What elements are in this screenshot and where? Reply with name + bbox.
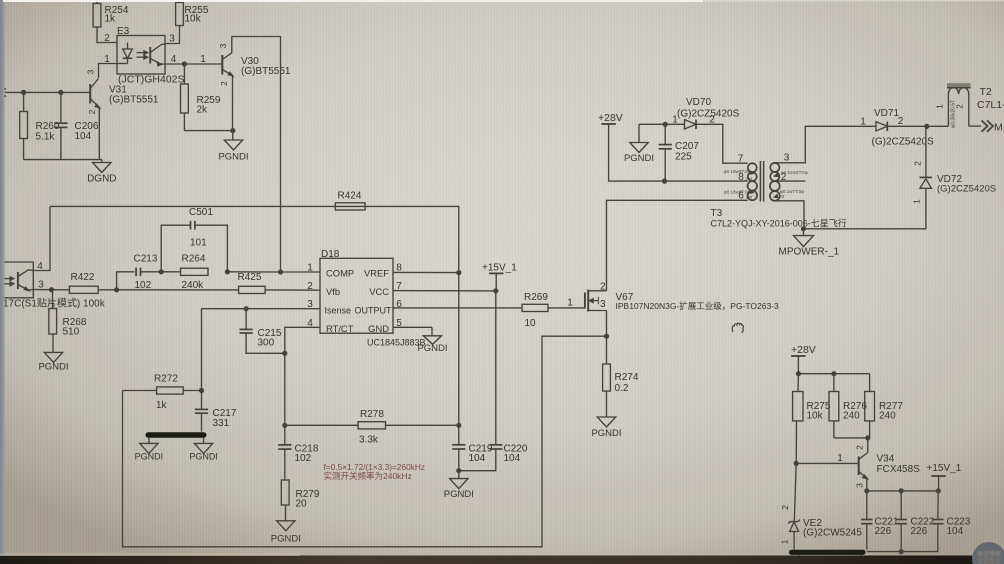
svg-text:φ0.38x20.5T: φ0.38x20.5T (950, 100, 956, 128)
wire 17C pin3 node (33, 289, 69, 291)
svg-text:x3: x3 (780, 194, 785, 199)
svg-text:E3: E3 (117, 26, 130, 37)
wire T3 pin2 stub (775, 180, 805, 182)
resistor R254 (93, 4, 101, 28)
svg-text:PGNDI: PGNDI (135, 452, 164, 462)
node MPOWER junction (801, 226, 806, 231)
resistor R260 (23, 92, 25, 111)
node COMP junction (278, 269, 283, 274)
capacitor C220 (489, 444, 502, 446)
svg-text:Vfb: Vfb (326, 286, 340, 297)
optocoupler 17C body (4, 262, 34, 298)
node pin3 junction (49, 287, 54, 292)
svg-text:300: 300 (258, 338, 275, 349)
svg-text:C7L2-YQJ-XY-2016-006-七星飞行: C7L2-YQJ-XY-2016-006-七星飞行 (711, 218, 847, 229)
ground PGNDI top (638, 124, 640, 142)
svg-text:3: 3 (169, 34, 175, 45)
node C207 bottom junction (662, 179, 667, 184)
svg-text:2: 2 (898, 116, 904, 127)
wire 28V rail to R277 (798, 373, 869, 375)
photo bottom dark strip (0, 556, 1004, 564)
svg-text:微信搜索: 微信搜索 (977, 550, 1001, 558)
resistor R272 (157, 387, 184, 394)
svg-text:+15V_1: +15V_1 (927, 463, 962, 474)
node R264 right junction (225, 269, 230, 274)
svg-text:240: 240 (879, 411, 896, 422)
svg-text:VD71: VD71 (874, 108, 899, 119)
wire VD70 cathode to T3 pin7 (696, 124, 748, 163)
node R278 C219 junction (456, 423, 461, 428)
wire R422 to R425 Vfb net (98, 289, 238, 291)
capacitor C219 (452, 444, 465, 446)
transformer T3 left winding upper (748, 163, 757, 172)
wire R276 R277 bottoms (834, 437, 870, 439)
svg-text:2: 2 (87, 109, 97, 114)
wire DGND bus (24, 159, 102, 161)
node V30 emitter junction (230, 128, 235, 133)
svg-text:PGNDI: PGNDI (271, 534, 301, 545)
svg-text:510: 510 (63, 327, 80, 338)
optocoupler E3 body (117, 36, 165, 75)
node VREF junction (456, 270, 461, 275)
wire T2 to output port (969, 125, 981, 127)
transistor V34 (867, 438, 869, 453)
wire R255 to E3 pin3 (165, 26, 180, 44)
svg-text:RT/CT: RT/CT (326, 323, 354, 334)
wire R254 top feed (96, 0, 98, 4)
svg-text:226: 226 (911, 526, 928, 537)
svg-text:(G)BT5551: (G)BT5551 (109, 95, 159, 106)
svg-text:R274: R274 (615, 372, 639, 383)
svg-text:104: 104 (75, 131, 92, 142)
wire R254 to E3 pin2 (97, 27, 117, 43)
node RT/CT C215 junction (282, 351, 287, 356)
svg-text:PGNDI: PGNDI (189, 452, 218, 462)
svg-text:104: 104 (947, 526, 964, 537)
ground below bar left (799, 555, 801, 557)
wire D18 pin6 OUTPUT (393, 307, 522, 309)
svg-text:GND: GND (368, 323, 389, 334)
wire Isense down leg (201, 309, 203, 391)
wire T3 pin3 to VD71 (775, 126, 876, 163)
svg-text:2: 2 (104, 33, 110, 44)
svg-text:1: 1 (780, 539, 790, 544)
17C light arrows (4, 278, 11, 280)
node VE2 base junction (794, 461, 799, 466)
ground PGNDI below R274 (597, 417, 615, 427)
capacitor C217 (201, 391, 203, 410)
node E3 pin4 junction (182, 61, 187, 66)
svg-text:PGNDI: PGNDI (444, 489, 474, 500)
node V34 emitter junction (864, 488, 869, 493)
ground MPOWER-_1 (803, 229, 805, 236)
wire MPOWER loop to VD72 (804, 188, 926, 229)
svg-text:1: 1 (200, 54, 206, 65)
svg-text:+15V_1: +15V_1 (482, 263, 517, 274)
photo left gray strip (0, 0, 5, 564)
wire V34 base (796, 462, 859, 464)
wire C213 to R264 (141, 271, 181, 273)
svg-text:C207: C207 (675, 141, 699, 152)
svg-text:102: 102 (295, 453, 312, 464)
svg-text:(G)2CZ5420S: (G)2CZ5420S (872, 137, 935, 148)
ground PGNDI below C219 (458, 471, 460, 479)
wire VD71 cathode to T2 node (887, 125, 948, 127)
svg-text:1k: 1k (156, 400, 168, 411)
svg-text:IPB107N20N3G-扩展工业级，PG-TO263-3: IPB107N20N3G-扩展工业级，PG-TO263-3 (616, 301, 780, 311)
wire VD72 cathode up (925, 126, 927, 177)
E3 internal LED (127, 43, 129, 50)
op-amp U1 controller D18 box (320, 258, 393, 333)
svg-text:VCC: VCC (369, 286, 389, 297)
capacitor C222 (900, 491, 902, 520)
svg-text:3.3k: 3.3k (359, 435, 379, 446)
svg-text:17C(S1贴片模式) 100k: 17C(S1贴片模式) 100k (3, 297, 106, 310)
wire D18 pin5 GND (393, 326, 432, 328)
node C215 top junction (244, 306, 249, 311)
T3 winding arrows left (750, 171, 753, 174)
wire V31 base net (5, 91, 90, 93)
svg-text:(G)2CZ5420S: (G)2CZ5420S (937, 184, 996, 195)
svg-text:104: 104 (469, 453, 486, 464)
svg-text:DGND: DGND (87, 174, 116, 185)
wire VREF vertical R424 to C219 (458, 206, 460, 444)
svg-text:2: 2 (855, 445, 865, 450)
node R272 junction (199, 388, 204, 393)
svg-text:5.1k: 5.1k (36, 132, 56, 143)
svg-text:240: 240 (843, 411, 860, 422)
svg-text:1: 1 (935, 104, 945, 109)
svg-text:1k: 1k (105, 14, 117, 25)
resistor R278 (285, 424, 358, 426)
svg-text:+28V: +28V (598, 112, 623, 124)
svg-text:102: 102 (135, 280, 152, 291)
svg-text:20: 20 (296, 499, 308, 510)
transistor V30 (221, 55, 223, 75)
T3 winding arrows right (775, 174, 778, 177)
svg-text:R264: R264 (182, 254, 206, 265)
svg-text:C213: C213 (134, 254, 158, 265)
svg-text:R422: R422 (71, 272, 95, 283)
svg-text:R269: R269 (524, 292, 548, 303)
svg-text:226: 226 (875, 526, 892, 537)
capacitor C207 (664, 124, 666, 144)
svg-text:T2: T2 (980, 86, 992, 98)
resistor R269 (522, 304, 548, 311)
capacitor C501 parallel loop (161, 225, 190, 272)
wire 15V rail bottom (867, 490, 939, 492)
svg-text:R278: R278 (360, 409, 384, 420)
svg-text:1: 1 (307, 263, 313, 274)
node VCC junction (493, 288, 498, 293)
svg-text:MPOWER-_1: MPOWER-_1 (779, 247, 840, 258)
svg-text:VREF: VREF (364, 267, 389, 278)
svg-text:(G)2CW5245: (G)2CW5245 (803, 528, 862, 539)
svg-text:3: 3 (38, 280, 44, 291)
svg-text:1: 1 (567, 298, 573, 309)
svg-text:实测开关频率为240kHz: 实测开关频率为240kHz (324, 471, 412, 481)
ground PGNDI pin5 (431, 327, 433, 336)
wire E3 pin1 to V31 collector (99, 64, 118, 79)
svg-text:2: 2 (780, 505, 790, 510)
wire Isense line (202, 308, 321, 310)
capacitor C213 (135, 268, 137, 277)
hand cursor icon (732, 323, 743, 332)
svg-text:10: 10 (525, 318, 537, 329)
diode VD71 (876, 122, 887, 131)
node VD71 T2 VD72 junction (924, 124, 929, 129)
svg-text:C501: C501 (189, 207, 213, 218)
svg-text:φ0.16w8T:0φ: φ0.16w8T:0φ (724, 189, 751, 194)
svg-text:R425: R425 (238, 272, 262, 283)
ground PGNDI below R279 (277, 521, 295, 531)
svg-text:(JCT)GH402S: (JCT)GH402S (118, 74, 185, 86)
E3 light arrows (137, 52, 145, 54)
svg-text:0.2: 0.2 (615, 383, 629, 394)
wire V30 emitter down (232, 76, 234, 131)
svg-text:V34: V34 (877, 454, 895, 465)
resistor R422 (69, 286, 98, 293)
node C222 bottom junction (899, 549, 904, 554)
resistor R264 (181, 268, 209, 275)
17C phototransistor (17, 272, 19, 289)
ground DGND (101, 160, 103, 163)
wire R255 top feed (179, 0, 181, 3)
zener diode VE2 (794, 463, 796, 521)
svg-text:φ0.16w8T:0φ: φ0.16w8T:0φ (724, 169, 751, 174)
T2 core bars (947, 83, 971, 87)
svg-text:10k: 10k (185, 14, 202, 25)
wire D18 pin4 RT/CT (285, 327, 320, 425)
svg-text:1: 1 (672, 115, 678, 126)
capacitor C206 (60, 92, 62, 123)
wire 17C pin4 to top loop (33, 206, 50, 270)
node V31 base junction dots (21, 90, 26, 95)
node C213 branch junction (114, 287, 119, 292)
resistor R276 (833, 374, 835, 392)
resistor R425 (239, 286, 266, 293)
svg-text:φ0.1w7T:0φ: φ0.1w7T:0φ (780, 189, 804, 194)
svg-text:COMP: COMP (326, 267, 354, 278)
diode VD70 (685, 120, 697, 129)
svg-text:1: 1 (837, 453, 843, 464)
ground bus thick bar (146, 432, 207, 438)
svg-text:D18: D18 (321, 249, 340, 260)
svg-text:331: 331 (213, 418, 230, 429)
svg-text:C7L1-Y: C7L1-Y (977, 99, 1004, 111)
svg-text:2: 2 (913, 161, 923, 166)
resistor R268 (52, 290, 54, 309)
resistor R274 (606, 336, 608, 364)
node C223 top junction (936, 488, 941, 493)
svg-text:3: 3 (600, 299, 606, 310)
capacitor C221 (866, 491, 868, 520)
resistor R259 (183, 64, 185, 84)
svg-text:PGNDI: PGNDI (218, 152, 248, 163)
svg-text:10k: 10k (807, 411, 824, 422)
svg-text:PGNDI: PGNDI (624, 153, 654, 164)
node C501 left junction (159, 269, 164, 274)
svg-text:3: 3 (86, 69, 96, 74)
wire R264 to COMP node (227, 271, 280, 273)
wire +28V to T3 pin8 (609, 124, 748, 181)
svg-text:VD70: VD70 (686, 97, 711, 108)
svg-text:M: M (994, 122, 1003, 134)
svg-text:PGNDI: PGNDI (591, 428, 621, 439)
svg-text:240k: 240k (182, 280, 205, 291)
transistor V31 (89, 84, 91, 104)
svg-text:2: 2 (600, 281, 606, 292)
capacitor C223 (937, 491, 940, 520)
wire bottom cap bus (867, 551, 938, 553)
svg-text:Isense: Isense (325, 305, 352, 315)
wire V67 drain to T3 pin6 (607, 200, 748, 290)
svg-text:2k: 2k (197, 105, 209, 116)
wire D18 pin7 VCC (393, 290, 496, 292)
svg-text:+28V: +28V (791, 344, 816, 356)
node R276 top junction (831, 371, 836, 376)
svg-text:(G)BT5551: (G)BT5551 (241, 66, 291, 77)
wire VCC vertical to C220 (495, 291, 497, 445)
svg-text:1: 1 (860, 117, 866, 128)
wire current sense loop (123, 336, 607, 547)
transformer T3 core (759, 161, 761, 202)
wire V34 emitter down (866, 478, 868, 491)
svg-text:R272: R272 (154, 374, 178, 385)
svg-text:R424: R424 (338, 191, 362, 202)
watermark circle (972, 542, 1004, 564)
svg-text:PGNDI: PGNDI (38, 362, 68, 373)
transformer T3 right winding lower (770, 181, 780, 191)
svg-text:104: 104 (504, 453, 521, 464)
output port chevrons (982, 121, 988, 132)
svg-text:FCX458S: FCX458S (877, 464, 921, 475)
capacitor C215 (245, 309, 247, 330)
capacitor C218 (284, 425, 286, 445)
svg-text:225: 225 (675, 152, 692, 163)
wire D18 pin8 VREF (393, 271, 459, 273)
wire R259 to V30 emitter (184, 130, 233, 132)
inductor T2 (948, 88, 968, 127)
svg-text:说说看点: 说说看点 (977, 557, 1001, 564)
transformer T3 right winding upper (770, 163, 779, 172)
wire T3 right bottom to MPOWER node (775, 201, 804, 229)
wire top loop line (50, 205, 459, 207)
wire C213 branch up (117, 272, 135, 290)
node C207 top junction (663, 122, 668, 127)
svg-text:7: 7 (738, 154, 744, 165)
resistor R277 (869, 374, 871, 392)
transistor Q V67 MOSFET (584, 293, 586, 309)
wire RT/CT to R278 row (282, 423, 287, 428)
svg-text:1: 1 (912, 199, 922, 204)
ground PGNDI below R268 (44, 352, 62, 362)
wire E3 pin4 to V30 base (165, 63, 222, 65)
svg-text:3: 3 (784, 153, 790, 164)
resistor R424 (335, 203, 365, 210)
ground below bar right (860, 555, 862, 557)
node V34 collector junction (865, 435, 870, 440)
svg-text:101: 101 (190, 238, 207, 249)
node C222 top junction (899, 488, 904, 493)
node C219 bottom junction (456, 468, 461, 473)
svg-text:OUTPUT: OUTPUT (355, 305, 393, 315)
ground PGNDI right of bar (203, 438, 205, 444)
ground bus thick bar right (789, 550, 866, 555)
svg-text:T3: T3 (711, 208, 723, 219)
svg-text:3: 3 (855, 483, 865, 488)
transformer T3 left winding lower (748, 181, 758, 191)
svg-text:3: 3 (218, 43, 228, 48)
node +28V R275 junction (796, 371, 801, 376)
ground PGNDI left of bar (148, 438, 150, 444)
resistor R279 (281, 480, 289, 505)
svg-text:2: 2 (219, 81, 229, 86)
resistor R255 (176, 3, 184, 26)
svg-text:2: 2 (307, 281, 313, 292)
node source sense junction (604, 334, 609, 339)
ground PGNDI below V30 (232, 131, 234, 140)
diode VD72 (920, 176, 933, 178)
wire COMP to D18 pin1 (281, 271, 321, 273)
wire V30 collector loop (232, 37, 281, 273)
wire R425 to D18 pin2 (265, 289, 320, 291)
svg-text:PGNDI: PGNDI (417, 343, 447, 354)
photo top white edge (3, 0, 703, 2)
wire R269 to V67 gate (548, 307, 585, 309)
left edge hook (3, 89, 6, 97)
wire PGNDI to VD70 anode (639, 123, 685, 125)
E3 internal phototransistor (149, 47, 151, 64)
resistor R275 (797, 374, 799, 392)
wire V67 source down (606, 311, 608, 337)
